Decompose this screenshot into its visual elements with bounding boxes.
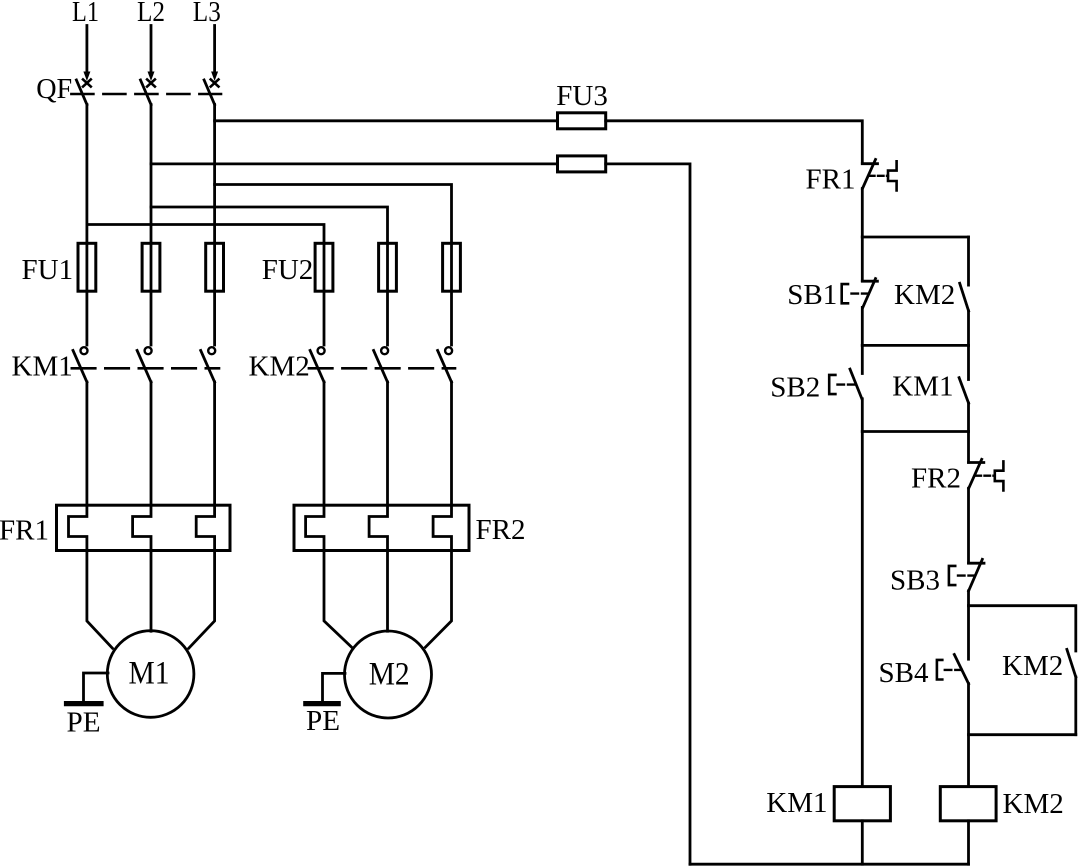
wire rung1 to SB1 bbox=[861, 237, 864, 281]
contactor KM2 aux NO hold blade bbox=[1067, 649, 1076, 677]
svg-text:M2: M2 bbox=[369, 657, 410, 693]
wire rung1 bottom bbox=[862, 344, 968, 347]
svg-text:KM2: KM2 bbox=[1003, 788, 1064, 820]
thermal relay FR1 trip link dashes bbox=[869, 175, 888, 177]
svg-text:SB3: SB3 bbox=[890, 565, 940, 597]
contactor KM1 main contact 3 hook bbox=[208, 347, 215, 354]
pushbutton SB3 actuator bbox=[949, 566, 955, 585]
svg-text:FU2: FU2 bbox=[262, 254, 314, 286]
fuse FU1 element 3 bbox=[206, 243, 224, 291]
wire phase B branch to FU3 lower bbox=[151, 162, 558, 165]
contactor KM2 linkage dashed bbox=[309, 367, 455, 370]
pushbutton SB3 terminal tick bbox=[969, 562, 985, 565]
thermal relay FR1 NC contact terminal tick bbox=[862, 162, 877, 165]
fuse FU3 upper bbox=[558, 113, 606, 129]
coil KM2 bbox=[940, 787, 996, 821]
pushbutton SB1 actuator bbox=[842, 284, 848, 303]
fuse FU1 element 2 bbox=[142, 243, 160, 291]
breaker QF linkage dashed bbox=[71, 93, 221, 96]
fuse FU3 lower bbox=[558, 156, 606, 172]
svg-text:PE: PE bbox=[67, 706, 101, 738]
contactor KM1 main contact 2 hook bbox=[145, 347, 152, 354]
thermal relay FR1 NC contact blade bbox=[863, 160, 876, 189]
pushbutton SB2 actuator bbox=[829, 375, 835, 394]
breaker QF pole1 x-mark bbox=[83, 79, 91, 86]
wire SB1 to rung1 bottom bbox=[861, 307, 864, 345]
contactor KM2 aux NO contact blade bbox=[960, 283, 969, 311]
wire phase B through FR1 heater to motor M1 bbox=[133, 382, 151, 631]
svg-text:KM2: KM2 bbox=[894, 279, 955, 311]
contactor KM2 main contact 3 hook bbox=[445, 347, 452, 354]
svg-text:KM2: KM2 bbox=[249, 351, 310, 383]
wire to KM1 coil bbox=[861, 432, 864, 787]
thermal relay FR2 NC contact terminal tick bbox=[969, 461, 984, 464]
wire SB3 to node B bbox=[967, 591, 970, 606]
svg-text:SB4: SB4 bbox=[879, 657, 929, 689]
contactor KM2 main contact 2 blade bbox=[374, 351, 388, 383]
wire KM2 aux branch upper bbox=[967, 237, 970, 285]
wire KM2 hold branch lower bbox=[1074, 677, 1077, 735]
wire phase A through FR1 heater to motor M1 bbox=[69, 382, 113, 648]
svg-text:FU1: FU1 bbox=[22, 254, 74, 286]
wire FU3 upper to control line drop bbox=[606, 121, 863, 164]
breaker QF pole2 blade bbox=[141, 80, 152, 105]
svg-text:L1: L1 bbox=[72, 0, 99, 28]
wire KM1 aux upper bbox=[967, 345, 970, 379]
pushbutton SB1 NC blade bbox=[863, 279, 876, 308]
motor M1 circle bbox=[107, 631, 194, 718]
contactor KM1 main contact 3 blade bbox=[201, 351, 215, 383]
contactor KM2 main contact 1 hook bbox=[318, 347, 325, 354]
wire phase C branch to FU2-3 bbox=[215, 185, 452, 244]
thermal relay FR1 trip actuator bbox=[888, 161, 897, 190]
wire phase B vertical (QF to FU1-2) bbox=[150, 105, 153, 346]
coil KM1 bbox=[834, 787, 890, 821]
wire KM1 aux lower bbox=[967, 403, 970, 431]
wire phase B branch to FU2-2 bbox=[151, 207, 388, 243]
fuse FU1 element 1 bbox=[78, 243, 96, 291]
wire FU3 lower to return drop bbox=[606, 164, 690, 864]
svg-text:FU3: FU3 bbox=[556, 80, 608, 112]
svg-text:KM1: KM1 bbox=[892, 371, 953, 403]
wire KM2 hold branch bottom bbox=[969, 733, 1076, 736]
pushbutton SB4 link dashes bbox=[945, 669, 962, 671]
pushbutton SB1 link dashes bbox=[852, 292, 869, 294]
thermal relay FR1 heater box bbox=[57, 505, 231, 550]
fuse FU2 element 3 bbox=[443, 243, 461, 291]
thermal relay FR2 trip link dashes bbox=[976, 475, 995, 477]
pushbutton SB4 actuator bbox=[937, 660, 942, 680]
wire KM2 coil to bus bbox=[967, 821, 970, 864]
contactor KM1 main contact 2 blade bbox=[137, 351, 151, 383]
wire SB4 to KM2 coil bbox=[967, 684, 970, 787]
svg-text:L2: L2 bbox=[137, 0, 165, 28]
contactor KM1 main contact 1 blade bbox=[73, 351, 87, 383]
arrowhead L1 bbox=[83, 72, 90, 82]
svg-text:FR2: FR2 bbox=[911, 463, 961, 495]
wire FR2 contact to SB3 bbox=[967, 488, 970, 562]
pushbutton SB3 link dashes bbox=[958, 574, 974, 576]
breaker QF pole1 blade bbox=[76, 80, 87, 105]
pushbutton SB1 terminal tick bbox=[862, 280, 877, 283]
breaker QF pole3 blade bbox=[204, 80, 215, 105]
svg-text:PE: PE bbox=[306, 705, 340, 737]
wire FU2-2 vertical bbox=[386, 243, 389, 345]
wire rung2 bottom bbox=[862, 430, 968, 433]
fuse FU2 element 2 bbox=[379, 243, 397, 291]
svg-text:SB1: SB1 bbox=[787, 279, 837, 311]
wire L1 drop bbox=[86, 26, 89, 72]
wire M2 to PE ground bbox=[323, 673, 346, 701]
wire phase C branch to FU3 upper bbox=[215, 119, 558, 122]
wire M1 to PE ground bbox=[84, 673, 109, 701]
breaker QF pole2 x-mark bbox=[147, 79, 155, 86]
wire phase C vertical (QF to FU1-3) bbox=[213, 105, 216, 346]
wire node B to SB4 bbox=[967, 606, 970, 660]
contactor KM2 main contact 3 blade bbox=[438, 351, 452, 383]
contactor KM1 aux NO contact blade bbox=[959, 378, 969, 404]
svg-text:SB2: SB2 bbox=[770, 371, 820, 403]
wire L2 drop bbox=[150, 26, 153, 72]
wire phase C through FR2 heater to motor M2 bbox=[425, 382, 451, 647]
contactor KM2 main contact 1 blade bbox=[310, 351, 324, 383]
svg-text:L3: L3 bbox=[193, 0, 221, 28]
pushbutton SB2 NO blade bbox=[850, 369, 862, 399]
arrowhead L2 bbox=[148, 72, 155, 82]
wire FU2-3 vertical bbox=[450, 243, 453, 345]
wire phase A vertical (QF to FU1-1) bbox=[86, 105, 89, 346]
breaker QF pole3 x-mark bbox=[211, 79, 219, 86]
svg-text:KM1: KM1 bbox=[766, 787, 827, 819]
wire rung1 top bbox=[862, 236, 968, 239]
ground PE bar (M1) bbox=[67, 701, 102, 706]
thermal relay FR2 trip actuator bbox=[995, 461, 1004, 490]
wire phase C through FR1 heater to motor M1 bbox=[189, 382, 215, 648]
wire rung2 to FR2 contact bbox=[967, 432, 970, 463]
wire SB2 lower bbox=[861, 399, 864, 432]
svg-text:KM1: KM1 bbox=[12, 351, 73, 383]
wire FU2-1 vertical bbox=[323, 243, 326, 345]
contactor KM1 linkage dashed bbox=[72, 367, 219, 370]
svg-text:QF: QF bbox=[36, 73, 72, 105]
svg-text:FR1: FR1 bbox=[0, 515, 49, 547]
svg-text:FR2: FR2 bbox=[476, 514, 526, 546]
wire control bottom bus bbox=[690, 863, 969, 866]
motor M2 circle bbox=[345, 631, 432, 718]
wire KM2 hold branch top bbox=[969, 606, 1076, 651]
thermal relay FR2 heater box bbox=[294, 505, 469, 550]
pushbutton SB3 NC blade bbox=[969, 559, 983, 591]
wire L3 drop bbox=[213, 26, 216, 72]
wire KM1 coil to bus bbox=[861, 821, 864, 864]
wire SB2 upper bbox=[861, 345, 864, 373]
wire phase A through FR2 heater to motor M2 bbox=[306, 382, 352, 648]
wire KM2 aux branch lower bbox=[967, 311, 970, 345]
pushbutton SB4 NO blade bbox=[954, 655, 968, 684]
contactor KM1 main contact 1 hook bbox=[81, 347, 88, 354]
svg-text:KM2: KM2 bbox=[1002, 650, 1063, 682]
contactor KM2 main contact 2 hook bbox=[381, 347, 388, 354]
thermal relay FR2 NC contact blade bbox=[969, 459, 982, 488]
wire phase A branch to FU2-1 bbox=[87, 225, 324, 244]
svg-text:M1: M1 bbox=[129, 656, 170, 692]
ground PE bar (M2) bbox=[306, 701, 338, 706]
arrowhead L3 bbox=[211, 72, 218, 82]
wire phase B through FR2 heater to motor M2 bbox=[369, 382, 387, 631]
pushbutton SB2 link dashes bbox=[838, 383, 857, 385]
fuse FU2 element 1 bbox=[315, 243, 333, 291]
wire FR1 contact to rung1 bbox=[861, 189, 864, 238]
svg-text:FR1: FR1 bbox=[806, 164, 856, 196]
